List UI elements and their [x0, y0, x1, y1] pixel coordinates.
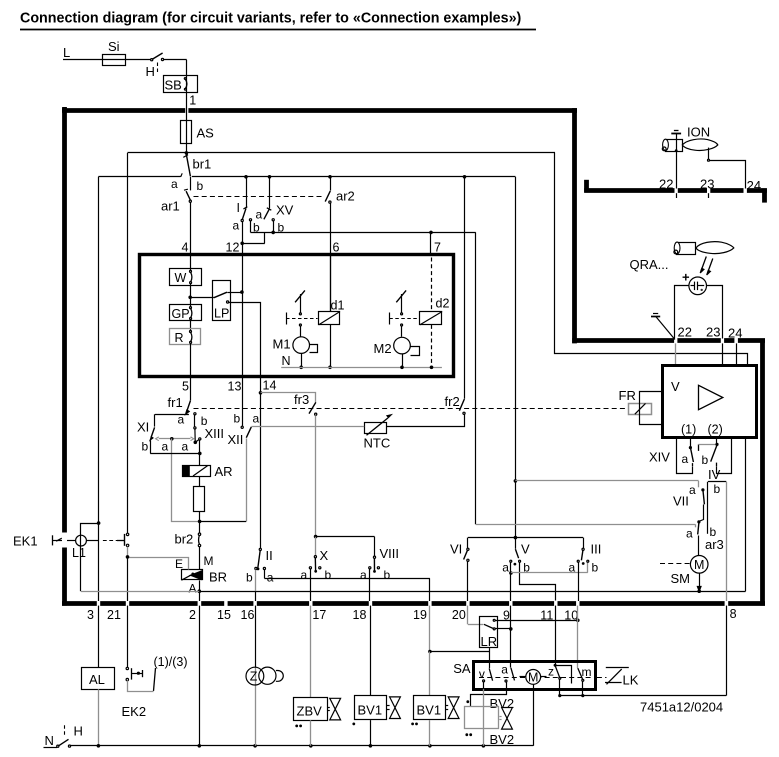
wire terminal 3 to AL	[98, 606, 100, 668]
svg-text:13: 13	[228, 380, 242, 394]
svg-text:d2: d2	[436, 297, 450, 311]
wire VII to ar3	[699, 505, 704, 522]
wire a-rail y578 to terminal 19	[264, 578, 430, 580]
svg-text:a: a	[171, 177, 178, 191]
radiation arrows QRA	[701, 257, 706, 272]
svg-text:BR: BR	[209, 570, 227, 585]
svg-text:VI: VI	[450, 542, 462, 557]
wire 21 lower with E branch node	[127, 547, 129, 557]
svg-text:b: b	[325, 568, 332, 582]
wire 22 to amplifier gray	[675, 343, 677, 365]
wire QRA left lead to terminal 22	[675, 286, 689, 339]
wire ar2-fr2 riser x464	[464, 177, 466, 399]
mech link fr dashed line	[194, 408, 628, 410]
wire XI-XIII common rail	[150, 453, 200, 455]
wire amplifier pin to SM rail	[745, 438, 747, 591]
wire phase rail y153	[128, 152, 556, 154]
control unit border bottom edge with terminal gaps	[62, 601, 97, 606]
wire to VII a-contact gray	[515, 480, 698, 482]
switch XIII lower contact	[199, 438, 201, 440]
svg-text:M2: M2	[374, 341, 392, 356]
wire terminal 14 riser	[260, 377, 262, 393]
wire border to lamp L1	[67, 540, 76, 542]
svg-text:Si: Si	[108, 39, 120, 54]
wire LR to terminal 10 wire	[495, 620, 578, 622]
mech link d1 dashed with stop bar	[286, 313, 288, 325]
wire LR to terminal 9 wire	[495, 628, 511, 630]
motor M2	[394, 337, 411, 354]
svg-text:22: 22	[659, 177, 673, 192]
wire IV contact to pin 2 path	[716, 463, 718, 467]
wire 24 to amplifier	[736, 343, 738, 365]
wire SA motor to rail	[533, 684, 535, 746]
switch X	[314, 535, 318, 539]
svg-text:M1: M1	[273, 337, 291, 352]
lamp L1	[76, 535, 87, 546]
svg-text:A: A	[189, 582, 197, 596]
fuse AS	[181, 121, 192, 144]
wire bottom neutral rail	[71, 745, 534, 747]
wire SM to rail with arrow	[699, 573, 701, 589]
switch V	[515, 538, 517, 549]
svg-text:a: a	[682, 452, 689, 466]
svg-text:IV: IV	[708, 467, 721, 482]
switch II	[259, 548, 261, 550]
control unit border top edge	[62, 108, 185, 113]
control thermostat R	[170, 329, 201, 345]
svg-text:23: 23	[706, 325, 720, 340]
svg-text:br2: br2	[175, 532, 194, 547]
svg-text:z: z	[548, 665, 554, 679]
switch III	[583, 538, 585, 549]
svg-text:3: 3	[87, 608, 94, 622]
svg-text:d1: d1	[331, 299, 345, 313]
pressure switch GP	[170, 305, 202, 321]
switch V a-contact to 9	[510, 560, 512, 562]
wire 21 to BR E input gray	[128, 558, 189, 570]
wire LP upper contact to wire 12	[227, 292, 242, 294]
svg-text:XII: XII	[228, 432, 244, 447]
svg-text:a: a	[689, 483, 696, 497]
switch VIII b-contact stub	[377, 567, 379, 569]
switch SB	[164, 76, 198, 93]
svg-text:a: a	[360, 568, 367, 582]
wire V-cluster feed	[515, 481, 517, 538]
svg-text:a: a	[162, 440, 169, 454]
valve BV2	[466, 700, 469, 703]
thermostat W	[170, 269, 202, 286]
wire 6 through coil d1	[330, 256, 332, 312]
svg-text:ar2: ar2	[336, 189, 355, 204]
wire BR A output to terminal 2	[199, 580, 201, 601]
wire AL to bottom rail gray	[98, 689, 100, 746]
svg-text:V: V	[521, 542, 530, 557]
svg-text:b: b	[246, 571, 253, 585]
svg-text:L: L	[63, 45, 70, 60]
wire neutral rail left gray	[81, 591, 199, 593]
svg-text:(1)/(3): (1)/(3)	[154, 655, 188, 669]
svg-text:XIV: XIV	[649, 450, 670, 465]
relay coil d1	[319, 312, 340, 325]
svg-text:AR: AR	[215, 464, 233, 479]
svg-text:AL: AL	[89, 672, 105, 687]
svg-text:II: II	[266, 548, 273, 563]
wire 7 dashed through coil d2	[431, 258, 433, 312]
title underline	[20, 29, 536, 31]
electrode wire ION to terminal 22	[675, 149, 678, 152]
svg-text:a: a	[686, 527, 693, 541]
wire fr3 to X contact	[315, 415, 317, 536]
valve ZBV	[310, 606, 312, 698]
switch XV b-contact	[272, 219, 274, 221]
wire SA-a to valve BV2	[471, 689, 507, 707]
motor SM	[690, 556, 708, 574]
control unit border left edge	[62, 107, 67, 533]
switch fr1 b-contact column XIII	[194, 413, 196, 415]
ground symbol QRA	[653, 313, 658, 315]
svg-text:R: R	[175, 331, 184, 345]
valve BV1 second	[429, 606, 431, 652]
svg-text:24: 24	[728, 326, 742, 341]
wire 12-13 through box	[242, 254, 244, 376]
svg-text:W: W	[175, 271, 187, 285]
switch II a-contact to 19 rail	[263, 567, 265, 569]
svg-text:ar1: ar1	[161, 199, 180, 214]
wire riser x515 to V cluster	[515, 177, 517, 481]
svg-text:24: 24	[747, 178, 761, 193]
node AS output	[185, 151, 189, 155]
svg-text:QRA...: QRA...	[630, 257, 669, 272]
wire M2 to N rail	[402, 354, 404, 367]
svg-text:6: 6	[333, 241, 340, 255]
svg-text:GP: GP	[172, 307, 190, 321]
switch VIII a-contact to 18	[369, 567, 371, 569]
wire terminal 13 to XII b-contact	[242, 377, 244, 427]
wire H to SB	[164, 59, 187, 61]
svg-text:M: M	[528, 671, 538, 685]
switch X b-contact stub	[319, 567, 321, 569]
svg-text:23: 23	[700, 177, 714, 192]
svg-text:(2): (2)	[708, 423, 723, 437]
wire R to terminal 5	[190, 343, 192, 376]
wire to relay AR	[199, 453, 201, 465]
relay coil AR with black section	[183, 466, 211, 477]
svg-text:BV1: BV1	[358, 703, 383, 718]
wire L1 top to wire 3	[81, 524, 99, 536]
svg-text:7: 7	[434, 241, 441, 255]
svg-text:N: N	[45, 733, 54, 748]
svg-text:b: b	[384, 568, 391, 582]
damper symbol LK	[606, 667, 629, 669]
svg-text:8: 8	[730, 607, 737, 621]
control unit border top-right edge with QRA terminal gaps	[572, 338, 674, 343]
wire terminal 20 to LR gray	[467, 606, 469, 625]
svg-text:XI: XI	[137, 420, 149, 435]
svg-text:SM: SM	[671, 571, 691, 586]
svg-text:H: H	[146, 64, 155, 79]
svg-text:a: a	[233, 219, 240, 233]
svg-text:b: b	[714, 482, 721, 496]
switch I b-contact	[249, 219, 251, 221]
svg-text:a: a	[501, 663, 508, 677]
switch XIV	[690, 438, 692, 447]
svg-text:ZBV: ZBV	[297, 704, 323, 719]
wire N rail in box	[281, 367, 442, 369]
wire terminal 21 to EK2	[127, 606, 129, 668]
svg-text:M: M	[204, 554, 214, 568]
wire b-line to terminal 7	[430, 232, 432, 256]
switch V b-contact to 11	[519, 560, 521, 562]
wire a-a bridge gray	[159, 438, 191, 440]
switch ar1	[190, 177, 192, 191]
svg-text:M: M	[694, 558, 704, 572]
svg-text:7451a12/0204: 7451a12/0204	[640, 700, 723, 715]
wire XII to resistor node	[200, 521, 247, 523]
wire AR to resistor	[199, 477, 201, 487]
wire L1 to contact	[86, 540, 98, 542]
switch III a-contact to 10	[577, 560, 579, 562]
wire br1-b rail y177 right segment	[192, 176, 516, 178]
wire br2 to BR M input	[199, 547, 201, 570]
svg-text:v: v	[479, 667, 485, 681]
svg-text:LR: LR	[481, 634, 498, 649]
svg-text:X: X	[320, 548, 329, 563]
wire ar2 to terminal 6	[330, 203, 332, 312]
svg-text:b: b	[702, 453, 709, 467]
wire bridge tap down gray	[172, 439, 200, 522]
motor M1	[293, 337, 310, 354]
svg-text:EK1: EK1	[13, 534, 38, 549]
svg-text:a: a	[267, 571, 274, 585]
svg-text:I: I	[237, 201, 240, 215]
svg-text:12: 12	[226, 241, 240, 255]
wire riser x475 to ar3	[475, 232, 477, 524]
wire terminal 5 to fr1	[190, 377, 192, 401]
svg-text:ION: ION	[687, 125, 710, 140]
resistor NTC	[365, 423, 387, 434]
wire terminal 11 riser to SA	[555, 606, 557, 666]
mech link ar1-ar2 dashed	[194, 196, 324, 198]
mech link SM dashed	[660, 563, 690, 565]
svg-text:a: a	[569, 561, 576, 575]
svg-text:V: V	[671, 379, 680, 394]
svg-text:EK2: EK2	[122, 704, 147, 719]
wire SB to AS through border	[186, 92, 188, 120]
flame rod wire ION to terminal 24	[708, 148, 710, 160]
mech link SA dashed	[479, 677, 592, 679]
svg-text:b: b	[592, 561, 599, 575]
switch IV	[711, 445, 717, 462]
svg-text:a: a	[301, 568, 308, 582]
wire 23 to amplifier	[722, 343, 724, 365]
flame QRA	[696, 242, 734, 254]
svg-text:fr2: fr2	[445, 394, 460, 409]
svg-text:L1: L1	[72, 546, 86, 560]
svg-text:a: a	[256, 208, 263, 222]
svg-text:SB: SB	[165, 77, 182, 92]
svg-text:+: +	[682, 270, 690, 285]
wire terminal 12 into box	[242, 243, 244, 254]
wire resistor to br2	[199, 511, 201, 533]
wire XII common down	[246, 438, 248, 521]
mech link d2 dashed with stop bar	[389, 313, 391, 325]
wire VII b-node to terminal 8	[707, 482, 709, 534]
burner nozzle QRA	[677, 243, 696, 255]
switch II b-contact to 16	[255, 567, 257, 569]
svg-text:20: 20	[452, 608, 466, 622]
svg-text:b: b	[234, 412, 241, 426]
switch XI	[154, 414, 156, 426]
wire amplifier pin 2 stub	[716, 438, 718, 444]
wire neutral rail right	[199, 591, 745, 593]
ION housing thick segment with terminal gaps	[584, 180, 589, 193]
wire 4 inside box	[190, 256, 192, 270]
wire X to VIII commons	[316, 536, 375, 538]
svg-text:22: 22	[678, 325, 692, 340]
wire fr1-a ledge	[155, 414, 189, 416]
svg-text:VIII: VIII	[380, 546, 400, 561]
svg-text:(1): (1)	[681, 423, 696, 437]
wire br1-a rail y177 left segment	[98, 176, 180, 178]
switch br1	[186, 154, 190, 176]
svg-text:b: b	[142, 440, 149, 454]
node rail taps	[244, 175, 248, 179]
svg-text:Connection diagram (for circui: Connection diagram (for circuit variants…	[20, 10, 522, 26]
wire ar3 to motor SM	[698, 536, 700, 556]
wire 19 junction to SA v-feed	[430, 651, 489, 653]
svg-text:AS: AS	[197, 126, 215, 141]
switch III b-contact	[587, 560, 589, 562]
wire I-a to terminal 12 jog	[242, 222, 244, 244]
svg-text:Z: Z	[250, 670, 258, 684]
switch XV	[269, 177, 271, 209]
svg-text:fr1: fr1	[168, 395, 183, 410]
amplifier triangle	[699, 385, 723, 409]
wire ar1 to terminal 4	[190, 202, 192, 254]
wire FR to amplifier	[640, 392, 663, 425]
wire QRA right lead to terminal 23	[707, 286, 723, 339]
contact EK1 on wire 21	[117, 540, 124, 542]
switch box LR	[480, 617, 498, 648]
actuator box SA	[474, 662, 596, 690]
svg-text:NTC: NTC	[364, 436, 391, 451]
wire terminal 3 riser	[98, 177, 100, 601]
flame ION	[682, 139, 718, 151]
wire terminal 16 through transformer Z	[255, 606, 257, 668]
svg-text:a: a	[253, 412, 260, 426]
wire b-line y232	[251, 232, 476, 234]
svg-text:1: 1	[189, 94, 196, 108]
switch LP lower contact	[227, 301, 229, 303]
svg-text:a: a	[502, 561, 509, 575]
switch VII	[701, 488, 704, 491]
switch LP	[190, 297, 214, 299]
wire 14 to fr3	[261, 393, 316, 403]
svg-text:a: a	[178, 413, 185, 427]
svg-text:BV2: BV2	[490, 732, 515, 747]
svg-text:a: a	[182, 440, 189, 454]
wire VI-V-III rail	[468, 537, 583, 539]
svg-text:b: b	[197, 179, 204, 193]
ION terminal stubs	[676, 193, 678, 198]
wire NTC to XII a-contact	[251, 426, 364, 428]
wire power to amplifier	[555, 153, 748, 366]
burner nozzle ION	[666, 140, 683, 152]
wire Si to H	[125, 59, 151, 61]
svg-text:18: 18	[353, 608, 367, 622]
wire LR output into SA	[489, 648, 491, 668]
wire LP to terminal 14	[229, 303, 261, 377]
svg-text:SA: SA	[453, 661, 471, 676]
switch H	[151, 59, 153, 61]
wire terminal 9 riser to SA	[510, 606, 512, 662]
motor SA-M	[526, 670, 541, 685]
valve BV1 first	[370, 606, 372, 696]
wire VI to terminal 20	[467, 561, 469, 601]
svg-text:19: 19	[413, 608, 427, 622]
button EK2	[126, 667, 128, 669]
svg-text:N: N	[282, 354, 291, 368]
wire AS to node	[186, 143, 188, 153]
wire fr2 to NTC	[387, 415, 465, 427]
wire terminal 2 to rail	[199, 606, 201, 746]
switch ar2	[330, 177, 332, 191]
svg-text:15: 15	[217, 608, 231, 622]
switch I	[246, 177, 248, 208]
switch ar3	[698, 523, 699, 535]
wire W to GP	[190, 284, 192, 307]
wire 21 riser	[127, 153, 129, 533]
alarm box AL	[82, 668, 115, 690]
control unit border right upper edge	[572, 108, 577, 343]
wire SA outputs to terminal 8	[560, 695, 727, 697]
switch VIII	[374, 537, 376, 557]
svg-text:4: 4	[182, 241, 189, 255]
wire terminal 10 riser to SA gray	[577, 606, 579, 668]
svg-text:VII: VII	[673, 494, 689, 509]
svg-text:LK: LK	[623, 673, 639, 688]
wire SA-v through BV2 to rail gray	[483, 689, 485, 746]
wire V-a to III-b gray	[511, 572, 588, 574]
load unit thick box	[140, 255, 454, 377]
svg-text:H: H	[74, 724, 83, 739]
svg-text:ar3: ar3	[705, 537, 724, 552]
wire 14 to II contact	[260, 393, 262, 549]
svg-text:XV: XV	[276, 203, 294, 218]
svg-text:17: 17	[312, 608, 326, 622]
svg-text:2: 2	[189, 608, 196, 622]
svg-text:XIII: XIII	[205, 426, 225, 441]
relay coil d2	[420, 312, 442, 325]
switch XIV b-contact link gray	[698, 444, 700, 451]
wire M1 to N rail	[301, 353, 303, 367]
switch X a-contact to 17	[309, 567, 311, 569]
svg-text:5: 5	[182, 380, 189, 394]
ground symbol ION	[674, 130, 679, 132]
svg-text:FR: FR	[619, 388, 636, 403]
wire L1 bottom to rail	[80, 546, 82, 591]
contact d1 with release slash	[295, 290, 305, 302]
svg-text:m: m	[582, 665, 592, 679]
svg-text:21: 21	[107, 608, 121, 622]
control unit border right edge	[760, 339, 765, 606]
ignition transformer Z	[246, 667, 264, 685]
mech link EK1 dashed	[103, 540, 117, 542]
wire to ar3 a-contact gray	[476, 524, 696, 526]
op-amp box V flame amplifier	[663, 366, 757, 438]
wire XIV a-contact to pin	[692, 463, 694, 466]
svg-text:BV1: BV1	[417, 703, 442, 718]
